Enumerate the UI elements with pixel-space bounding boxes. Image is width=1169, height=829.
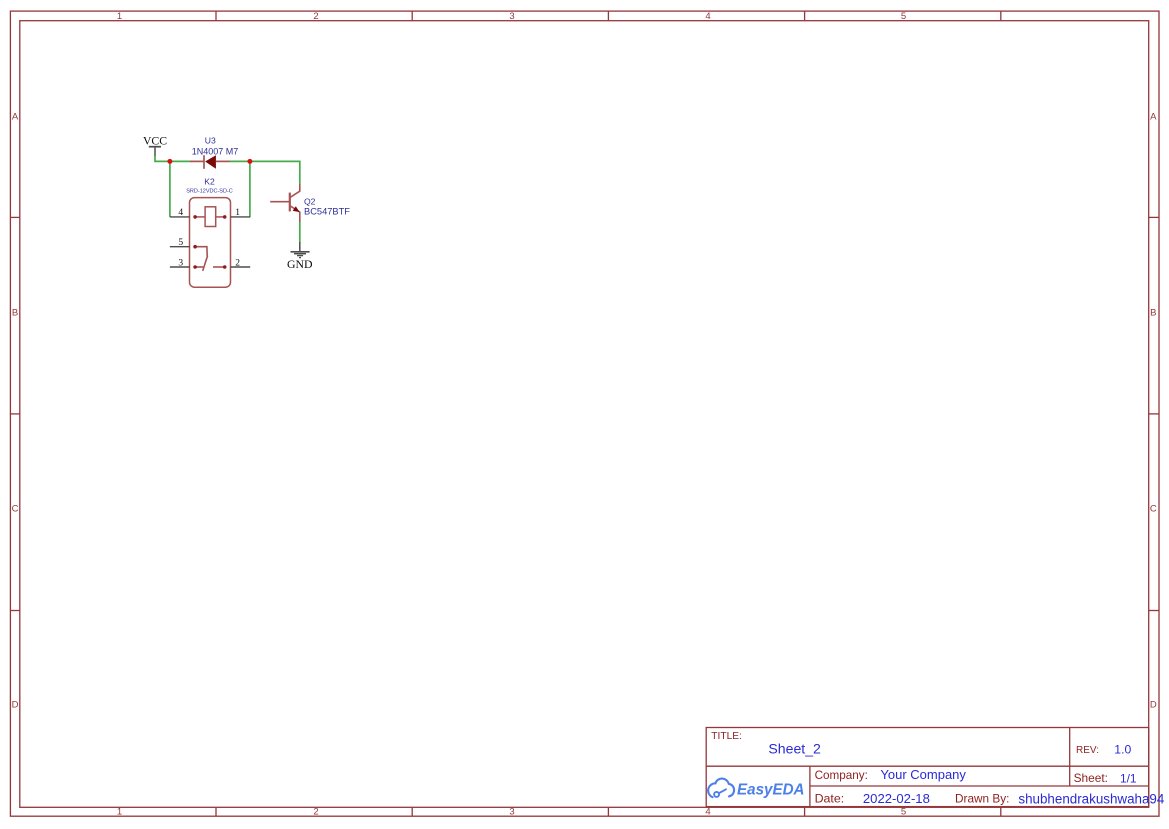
- svg-text:5: 5: [178, 238, 183, 248]
- pin number 4: [178, 208, 183, 218]
- value 1N4007 M7: [192, 147, 239, 157]
- EasyEDA logo: [708, 779, 734, 798]
- svg-text:3: 3: [178, 258, 183, 268]
- svg-text:SRD-12VDC-SD-C: SRD-12VDC-SD-C: [186, 188, 232, 194]
- svg-text:B: B: [1150, 307, 1156, 318]
- pin number 2: [235, 258, 240, 268]
- relay coil rectangle: [205, 207, 216, 227]
- svg-text:1/1: 1/1: [1120, 771, 1137, 785]
- svg-text:4: 4: [705, 806, 710, 817]
- svg-text:1: 1: [235, 208, 240, 218]
- transistor Q2 base bar: [289, 193, 291, 212]
- svg-text:3: 3: [509, 806, 514, 817]
- power flag VCC: [143, 134, 167, 156]
- svg-text:2: 2: [313, 806, 318, 817]
- transistor Q2 collector: [290, 184, 300, 197]
- svg-text:TITLE:: TITLE:: [711, 731, 742, 742]
- relay pin 1 lead: [231, 216, 251, 218]
- svg-text:5: 5: [901, 806, 906, 817]
- svg-text:B: B: [12, 307, 18, 318]
- label U3: [205, 136, 216, 146]
- svg-text:D: D: [1150, 699, 1157, 710]
- diode U3 anode triangle: [205, 155, 216, 169]
- transistor Q2 emitter: [290, 206, 300, 222]
- svg-text:C: C: [12, 503, 19, 514]
- svg-text:A: A: [12, 111, 19, 122]
- label Q2: [304, 197, 316, 207]
- transistor Q2 base lead: [270, 201, 290, 203]
- svg-text:Your Company: Your Company: [880, 767, 966, 782]
- svg-text:Q2: Q2: [304, 197, 316, 207]
- svg-text:EasyEDA: EasyEDA: [737, 782, 805, 799]
- relay switch blade: [203, 256, 208, 271]
- relay switch pin 2 contact dash: [213, 266, 225, 268]
- svg-text:2: 2: [235, 258, 240, 268]
- svg-text:REV:: REV:: [1076, 745, 1099, 756]
- svg-text:1.0: 1.0: [1114, 742, 1131, 756]
- wire junction A down to relay pin 4: [169, 161, 171, 217]
- net label GND: [287, 257, 313, 271]
- svg-text:Drawn By:: Drawn By:: [955, 792, 1009, 806]
- relay pin 3 lead: [170, 266, 190, 268]
- svg-text:2: 2: [313, 11, 318, 22]
- svg-text:GND: GND: [287, 257, 313, 271]
- diode U3 leads: [190, 160, 230, 162]
- relay pin 4 lead: [170, 216, 190, 218]
- label K2: [204, 176, 215, 186]
- wire Q2 emitter to ground: [299, 221, 301, 242]
- title block texts: [711, 731, 1108, 806]
- pin number 1: [235, 208, 240, 218]
- svg-text:Company:: Company:: [815, 769, 868, 782]
- svg-text:K2: K2: [204, 176, 215, 186]
- svg-text:Date:: Date:: [815, 792, 845, 806]
- value SRD-12VDC-SD-C: [186, 188, 232, 194]
- svg-text:A: A: [1150, 111, 1157, 122]
- ground symbol stem: [299, 242, 301, 251]
- relay pin 2 lead: [231, 266, 251, 268]
- svg-text:4: 4: [178, 208, 183, 218]
- svg-text:1: 1: [117, 11, 122, 22]
- ground symbol bars: [291, 252, 310, 258]
- relay pin end dots: [193, 215, 226, 269]
- wire junction B down to relay pin 1: [249, 161, 251, 217]
- svg-text:U3: U3: [205, 136, 216, 146]
- svg-text:2022-02-18: 2022-02-18: [863, 791, 930, 806]
- svg-text:Sheet_2: Sheet_2: [768, 740, 821, 756]
- relay pin 5 lead: [170, 246, 190, 248]
- svg-text:shubhendrakushwaha94: shubhendrakushwaha94: [1018, 791, 1164, 806]
- value BC547BTF: [304, 206, 350, 216]
- svg-text:BC547BTF: BC547BTF: [304, 206, 350, 216]
- svg-text:C: C: [1150, 503, 1157, 514]
- svg-text:D: D: [12, 699, 19, 710]
- svg-text:4: 4: [705, 11, 710, 22]
- wire VCC stem green: [155, 156, 191, 162]
- pin number 3: [178, 258, 183, 268]
- svg-text:5: 5: [901, 11, 906, 22]
- wire diode right to corner and down to Q2 collector: [229, 161, 300, 184]
- svg-text:3: 3: [509, 11, 514, 22]
- diode U3 cathode bar: [203, 155, 205, 169]
- svg-text:1N4007 M7: 1N4007 M7: [192, 147, 239, 157]
- svg-text:1: 1: [117, 806, 122, 817]
- pin number 5: [178, 238, 183, 248]
- transistor Q2 emitter arrow: [293, 206, 300, 212]
- junction dot A: [167, 159, 172, 164]
- relay switch common elbow (pin 5): [195, 247, 207, 257]
- svg-text:VCC: VCC: [143, 134, 167, 147]
- svg-text:Sheet:: Sheet:: [1074, 771, 1108, 785]
- title block frame: [706, 728, 1148, 807]
- relay switch pin 3 stub: [195, 266, 203, 268]
- junction dot B: [247, 159, 252, 164]
- relay coil leads: [195, 216, 225, 218]
- relay K2 body: [190, 198, 231, 288]
